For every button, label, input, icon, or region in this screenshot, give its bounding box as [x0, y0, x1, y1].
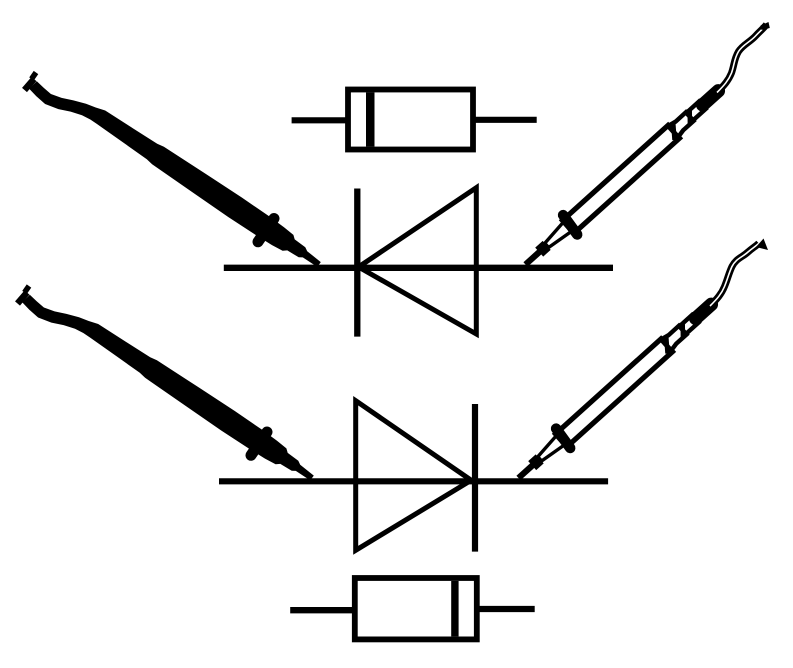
- right lead of top package: [473, 117, 537, 123]
- diode package D2 (bottom, cathode band on right): [355, 578, 477, 639]
- red test probe (positive, outlined) on top diode cathode side: [526, 91, 719, 265]
- left lead of top package: [292, 117, 348, 123]
- black test probe (negative) on bottom diode anode side: [18, 286, 314, 480]
- wire (bottom test circuit): [219, 478, 608, 484]
- left lead of bottom package: [290, 607, 355, 613]
- red probe cable (bottom): [710, 239, 768, 307]
- wire (top test circuit): [224, 265, 613, 271]
- diode D1 symbol: cathode bar (top): [354, 189, 360, 337]
- right lead of bottom package: [477, 606, 535, 612]
- red test probe (positive, outlined) on bottom diode cathode side: [519, 304, 712, 478]
- diode D2 symbol: anode triangle (bottom, pointing right): [356, 401, 472, 551]
- diode D1 symbol: anode triangle (top, pointing left): [359, 188, 477, 334]
- diode D2 symbol: cathode bar (bottom): [472, 404, 478, 552]
- red probe cable (top): [717, 22, 770, 93]
- diode package D1 (top, cathode band on left): [348, 90, 473, 150]
- black test probe (negative) on top diode anode side: [25, 73, 321, 267]
